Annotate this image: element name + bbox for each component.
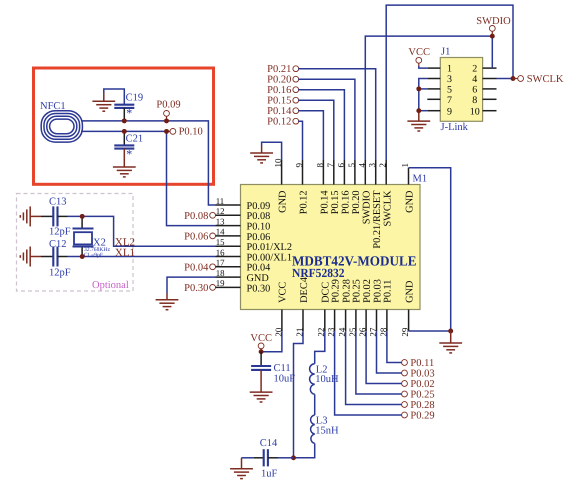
svg-text:14: 14: [216, 227, 225, 237]
svg-text:6: 6: [336, 163, 346, 168]
svg-text:18: 18: [216, 268, 225, 278]
svg-text:P0.04: P0.04: [184, 263, 209, 274]
svg-text:C13: C13: [49, 197, 67, 208]
svg-text:P0.29: P0.29: [330, 279, 341, 303]
svg-text:7: 7: [447, 95, 452, 106]
svg-text:P0.09: P0.09: [156, 99, 180, 110]
svg-text:P0.30: P0.30: [247, 283, 271, 294]
svg-text:M1: M1: [413, 174, 428, 185]
svg-text:3: 3: [367, 163, 377, 168]
svg-text:11: 11: [216, 196, 224, 206]
svg-text:P0.03: P0.03: [372, 279, 383, 303]
svg-text:P0.06: P0.06: [184, 232, 208, 243]
svg-text:P0.12: P0.12: [299, 191, 310, 215]
svg-text:1: 1: [400, 163, 410, 168]
svg-text:P0.11: P0.11: [410, 358, 434, 369]
svg-text:*: *: [126, 106, 132, 120]
svg-text:P0.30: P0.30: [184, 283, 208, 294]
svg-text:VCC: VCC: [250, 333, 272, 344]
svg-text:P0.15: P0.15: [330, 191, 341, 215]
svg-text:P0.15: P0.15: [267, 96, 291, 107]
svg-text:C12: C12: [49, 239, 67, 250]
svg-text:P0.20: P0.20: [351, 191, 362, 215]
svg-text:GND: GND: [404, 280, 415, 303]
svg-text:P0.16: P0.16: [267, 85, 291, 96]
svg-text:8: 8: [472, 95, 477, 106]
svg-text:VCC: VCC: [278, 282, 289, 303]
svg-text:SWDIO: SWDIO: [476, 16, 511, 27]
svg-text:VCC: VCC: [408, 47, 430, 58]
svg-text:P0.08: P0.08: [184, 211, 208, 222]
svg-text:19: 19: [216, 278, 225, 288]
svg-text:P0.14: P0.14: [267, 106, 292, 117]
svg-text:15: 15: [216, 237, 225, 247]
svg-text:5: 5: [346, 163, 356, 168]
svg-text:5: 5: [447, 85, 452, 96]
svg-text:3: 3: [447, 74, 452, 85]
svg-text:16: 16: [216, 247, 225, 257]
svg-text:12pF: 12pF: [49, 227, 71, 238]
svg-text:10: 10: [470, 106, 480, 117]
svg-text:1uF: 1uF: [261, 468, 278, 479]
svg-text:12pF: 12pF: [49, 268, 71, 279]
svg-text:9: 9: [294, 163, 304, 168]
svg-text:P0.03: P0.03: [410, 369, 434, 380]
svg-text:P0.16: P0.16: [341, 191, 352, 215]
svg-text:2: 2: [378, 163, 388, 168]
svg-text:13: 13: [216, 216, 225, 226]
svg-text:C14: C14: [260, 438, 278, 449]
svg-text:2: 2: [472, 64, 477, 75]
svg-text:P0.25: P0.25: [410, 390, 434, 401]
svg-text:CL=9pF: CL=9pF: [84, 253, 103, 259]
svg-text:J1: J1: [441, 47, 450, 58]
svg-text:C11: C11: [274, 363, 291, 374]
svg-text:XL1: XL1: [115, 247, 135, 259]
svg-text:29: 29: [400, 327, 410, 337]
svg-text:SWDIO: SWDIO: [361, 190, 372, 224]
svg-text:J-Link: J-Link: [441, 122, 469, 133]
svg-text:4: 4: [472, 74, 477, 85]
svg-text:DEC4: DEC4: [299, 277, 310, 303]
svg-text:Optional: Optional: [92, 280, 129, 291]
svg-text:P0.21/RESET: P0.21/RESET: [372, 190, 383, 249]
svg-text:GND: GND: [405, 190, 416, 213]
svg-text:P0.14: P0.14: [320, 191, 331, 215]
svg-text:P0.28: P0.28: [410, 400, 434, 411]
svg-text:9: 9: [447, 106, 452, 117]
svg-text:4: 4: [357, 163, 367, 168]
svg-text:SWCLK: SWCLK: [527, 74, 564, 85]
svg-text:P0.29: P0.29: [410, 411, 434, 422]
svg-text:P0.11: P0.11: [383, 280, 394, 303]
svg-text:P0.02: P0.02: [362, 279, 373, 303]
svg-text:SWCLK: SWCLK: [382, 190, 393, 227]
svg-text:1: 1: [447, 64, 452, 75]
svg-text:10uF: 10uF: [274, 374, 296, 385]
svg-text:P0.21: P0.21: [267, 64, 291, 75]
svg-text:P0.10: P0.10: [179, 127, 203, 138]
svg-text:P0.20: P0.20: [267, 75, 291, 86]
svg-text:7: 7: [325, 163, 335, 168]
svg-text:15nH: 15nH: [315, 425, 339, 436]
svg-text:17: 17: [216, 258, 225, 268]
svg-text:6: 6: [472, 85, 477, 96]
svg-text:GND: GND: [278, 190, 289, 213]
svg-text:12: 12: [216, 206, 225, 216]
svg-text:P0.02: P0.02: [410, 379, 434, 390]
svg-text:8: 8: [315, 163, 325, 168]
svg-text:10uH: 10uH: [315, 374, 339, 385]
svg-text:P0.12: P0.12: [267, 117, 291, 128]
svg-text:C21: C21: [126, 134, 144, 145]
svg-text:NFC1: NFC1: [40, 101, 66, 112]
svg-text:*: *: [126, 147, 132, 161]
svg-text:C19: C19: [126, 93, 144, 104]
